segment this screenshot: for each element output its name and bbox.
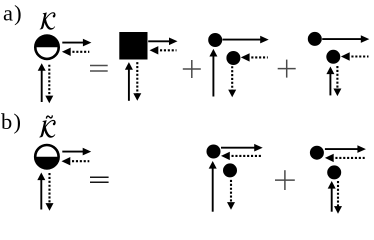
- svg-text:b): b): [1, 109, 22, 134]
- svg-text:a): a): [3, 1, 23, 26]
